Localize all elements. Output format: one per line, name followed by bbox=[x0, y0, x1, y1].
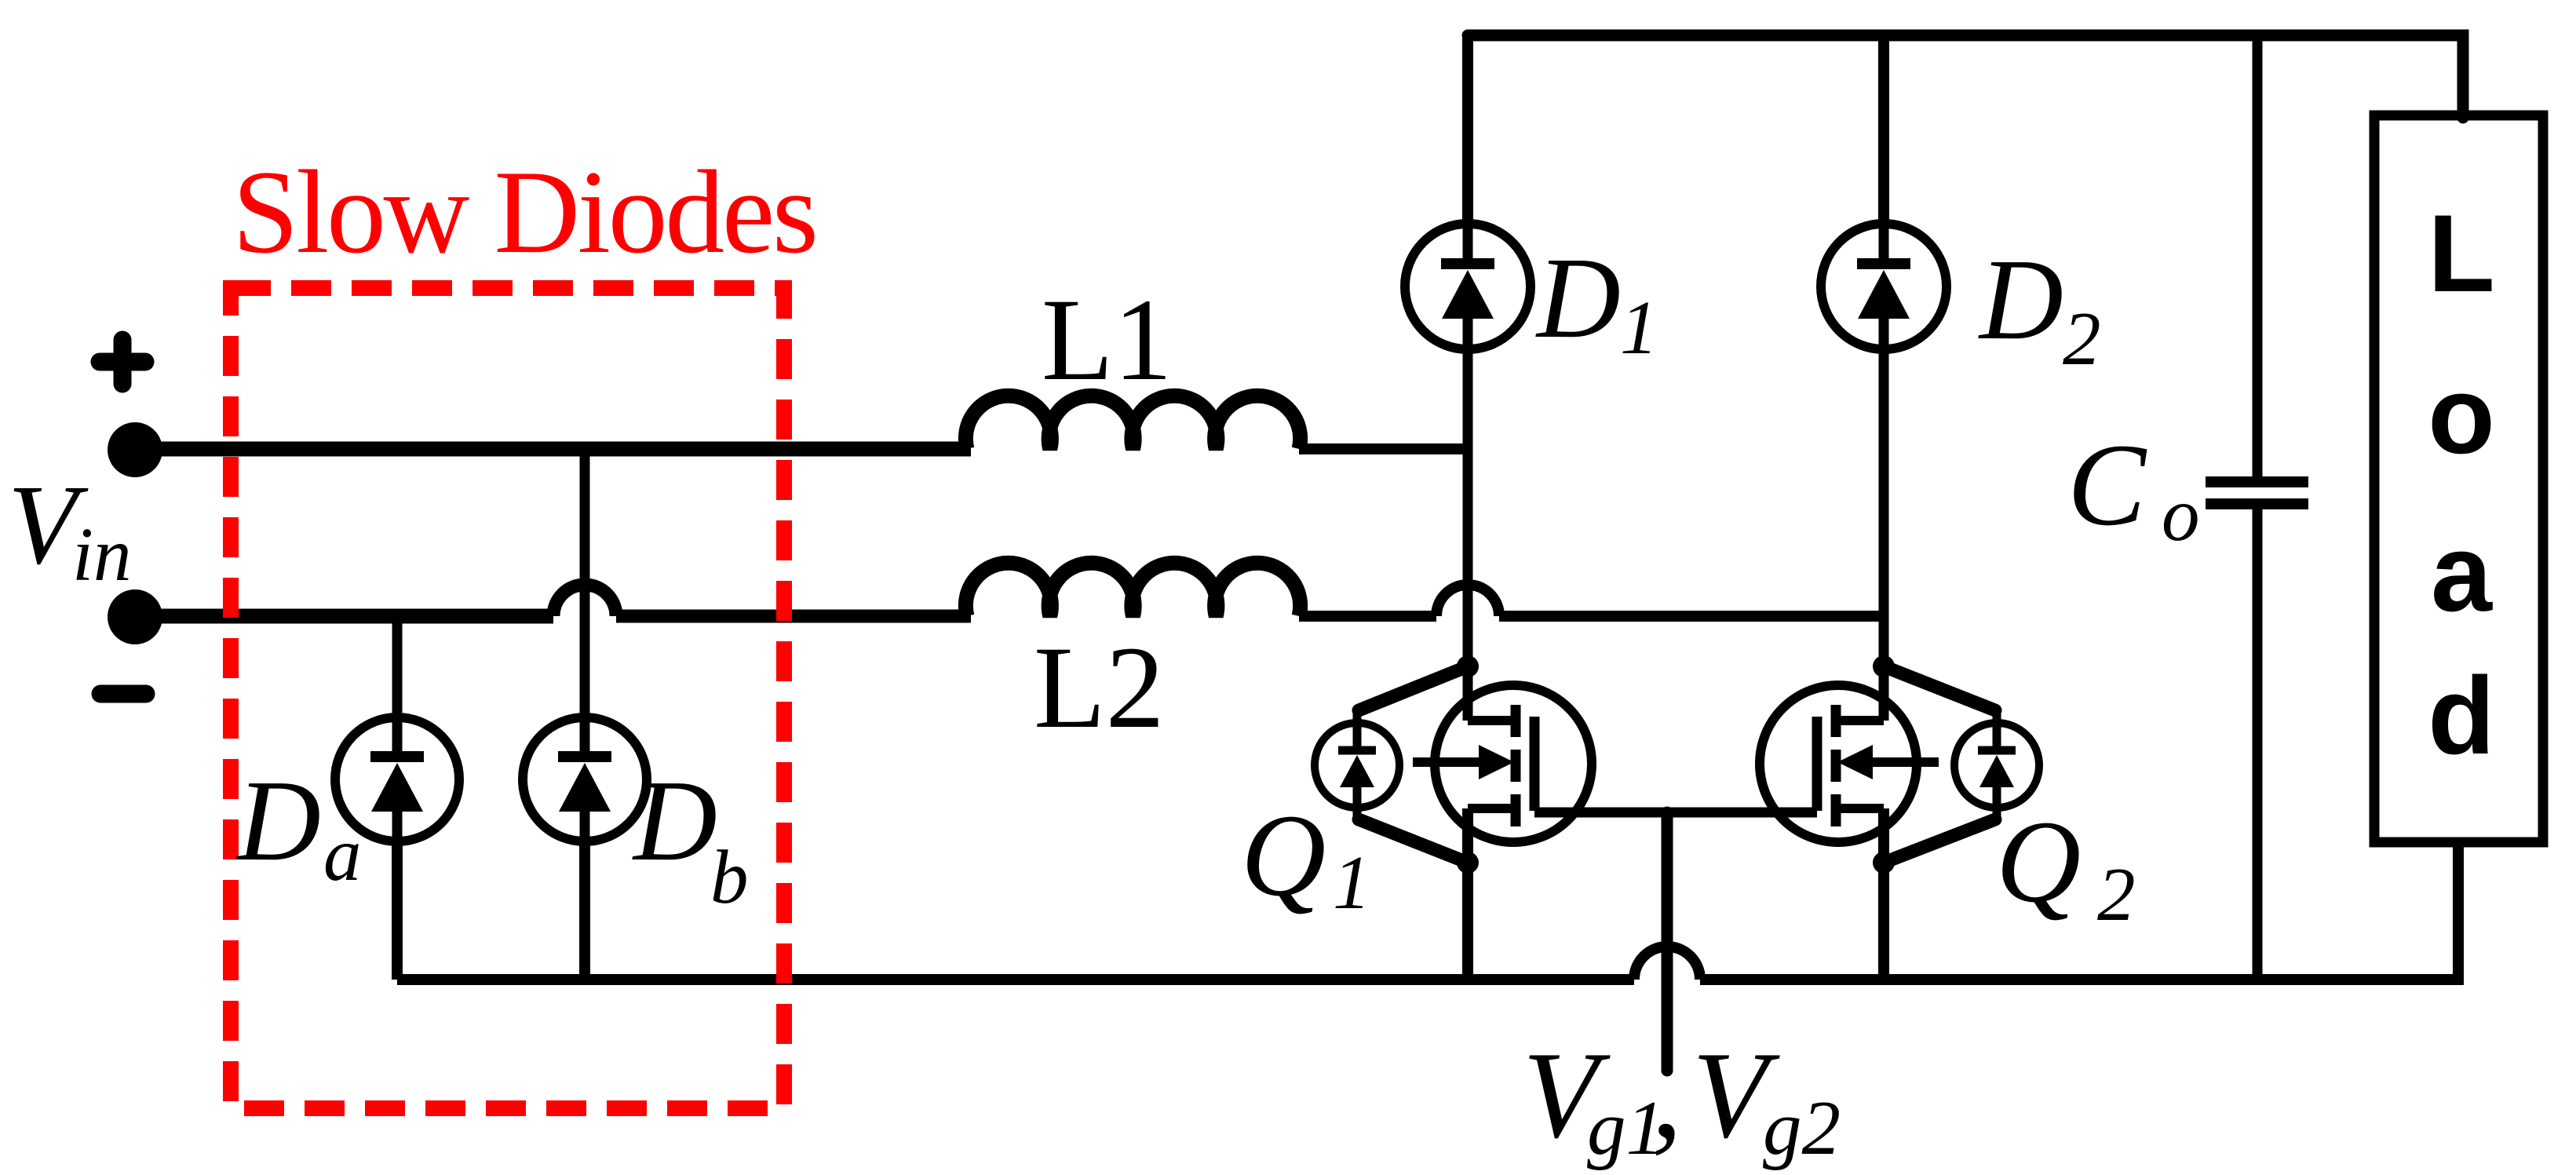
svg-text:a: a bbox=[2431, 511, 2493, 634]
svg-text:D: D bbox=[1535, 234, 1621, 363]
svg-text:L2: L2 bbox=[1034, 622, 1165, 753]
svg-text:D: D bbox=[235, 757, 321, 885]
label Vg1,Vg2 bbox=[1523, 1027, 1841, 1171]
wire Db branch (from top rail, hops bottom input rail) bbox=[580, 449, 590, 980]
body diode of Q1 bbox=[1315, 710, 1399, 820]
load box bbox=[2374, 115, 2543, 980]
plus terminal mark bbox=[100, 340, 145, 384]
body diode of Q2 bbox=[1954, 710, 2039, 820]
label Db bbox=[632, 757, 749, 919]
svg-text:1: 1 bbox=[1620, 286, 1658, 370]
transistor Q1 (MOSFET) bbox=[1359, 655, 1592, 980]
svg-text:1: 1 bbox=[1333, 841, 1371, 925]
minus terminal mark bbox=[100, 685, 146, 703]
wire D2 branch vertical (node B to Q2 drain) bbox=[1878, 35, 1889, 721]
svg-text:Q: Q bbox=[1241, 790, 1326, 921]
svg-text:,: , bbox=[1651, 1027, 1683, 1164]
label Co bbox=[2067, 420, 2200, 556]
svg-text:Slow Diodes: Slow Diodes bbox=[232, 146, 819, 278]
wire bottom return rail bbox=[397, 842, 2458, 980]
diode Da bbox=[335, 717, 459, 841]
label Vin bbox=[8, 462, 131, 597]
svg-text:in: in bbox=[72, 513, 131, 597]
label Q1 bbox=[1241, 790, 1371, 925]
svg-text:L1: L1 bbox=[1042, 275, 1173, 405]
wire top output rail bbox=[1468, 35, 2463, 118]
svg-text:2: 2 bbox=[2063, 297, 2101, 381]
wire L1 output to node A bbox=[1299, 443, 1468, 454]
diode Db bbox=[523, 717, 647, 841]
Vin positive terminal dot bbox=[108, 422, 162, 477]
svg-text:C: C bbox=[2067, 420, 2147, 550]
svg-text:L: L bbox=[2428, 192, 2495, 315]
svg-text:D: D bbox=[632, 757, 717, 885]
label D1 bbox=[1535, 234, 1658, 370]
label Q2 bbox=[1996, 797, 2136, 936]
diode D2 bbox=[1821, 224, 1947, 349]
svg-text:d: d bbox=[2428, 654, 2495, 777]
svg-text:a: a bbox=[323, 812, 362, 896]
label Load bbox=[2428, 192, 2495, 777]
svg-text:b: b bbox=[710, 835, 749, 919]
inductor L1 bbox=[965, 396, 1300, 449]
inductor L2 bbox=[965, 563, 1300, 616]
svg-text:Q: Q bbox=[1996, 797, 2081, 927]
diode D1 bbox=[1405, 224, 1531, 349]
svg-text:D: D bbox=[1978, 235, 2063, 364]
svg-text:o: o bbox=[2428, 353, 2495, 476]
wire top input rail bbox=[135, 442, 971, 457]
svg-text:2: 2 bbox=[2097, 852, 2136, 936]
wire L2 output to node B (hop over Q1 drain branch) bbox=[1299, 585, 1884, 616]
label Da bbox=[235, 757, 362, 896]
wire Da branch bbox=[392, 616, 403, 980]
svg-text:o: o bbox=[2162, 473, 2200, 556]
label D2 bbox=[1978, 235, 2101, 381]
Vin negative terminal dot bbox=[108, 589, 162, 644]
wire D1 branch vertical (node A to Q1 drain) bbox=[1462, 35, 1473, 721]
svg-text:g2: g2 bbox=[1763, 1086, 1841, 1171]
red dashed box around slow diodes bbox=[231, 288, 784, 1108]
wire bottom input rail (with hop over Db branch) bbox=[135, 585, 971, 616]
transistor Q2 (MOSFET, mirrored) bbox=[1760, 655, 1995, 980]
wire gate bus Q1-Q2 with drive terminal bbox=[1534, 812, 1817, 1071]
capacitor Co bbox=[2206, 35, 2308, 980]
